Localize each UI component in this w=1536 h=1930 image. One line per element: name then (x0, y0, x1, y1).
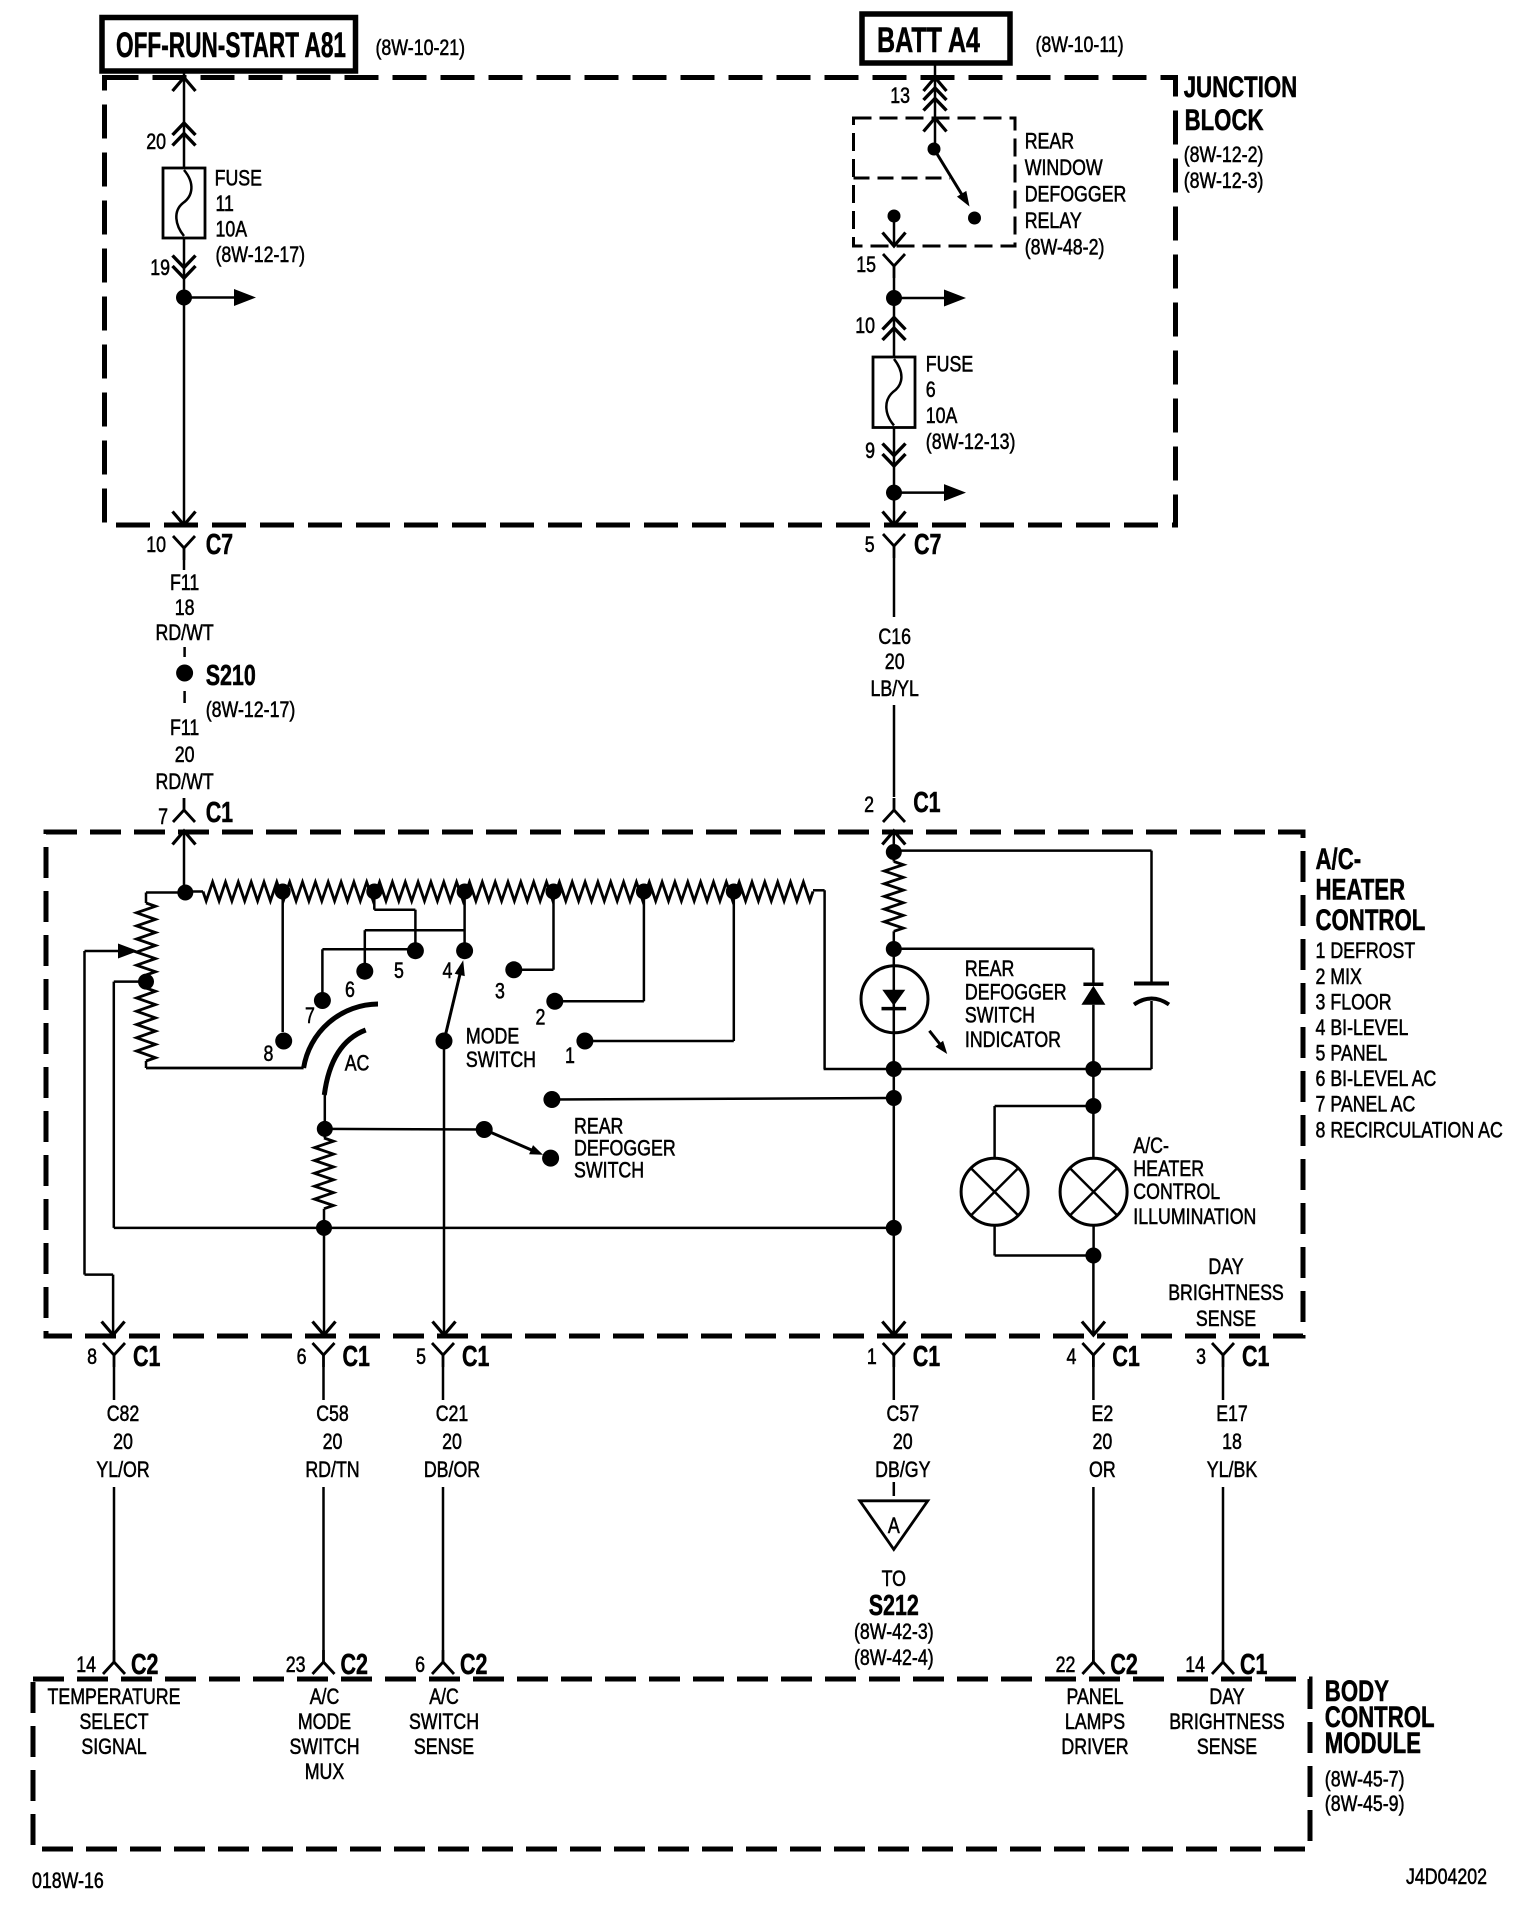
svg-text:18: 18 (1222, 1429, 1242, 1454)
junction block dashed border (105, 78, 1176, 526)
svg-text:SENSE: SENSE (1197, 1734, 1257, 1759)
svg-text:RELAY: RELAY (1025, 208, 1082, 233)
svg-text:23: 23 (286, 1652, 306, 1677)
connector C1 pin 7 (183, 798, 186, 810)
svg-text:AC: AC (345, 1050, 370, 1075)
branch arrow tap right (184, 296, 238, 299)
wire pot tap to rail (114, 980, 146, 983)
wire C82 to body module (113, 1487, 116, 1650)
svg-text:A: A (888, 1513, 900, 1538)
connector C2 pin 14 at body control module (113, 1650, 116, 1662)
svg-text:5: 5 (865, 532, 875, 557)
svg-text:DEFOGGER: DEFOGGER (1025, 182, 1127, 207)
svg-text:10A: 10A (926, 403, 958, 428)
power node OFF-RUN-START A81 box (102, 18, 356, 72)
svg-text:BRIGHTNESS: BRIGHTNESS (1168, 1280, 1284, 1305)
svg-text:14: 14 (76, 1652, 96, 1677)
wire to capacitor top (894, 849, 1152, 852)
svg-text:C58: C58 (316, 1401, 349, 1426)
potentiometer tap node (138, 974, 154, 990)
svg-text:1 DEFROST: 1 DEFROST (1316, 938, 1416, 963)
indicator pointer arrow (929, 1031, 943, 1048)
svg-text:8: 8 (87, 1344, 97, 1369)
wire from OFF-RUN-START A81 into junction block (183, 71, 186, 77)
wire C82 20 YL/OR (113, 1367, 116, 1400)
wire rear defogger switch to C57 branch (552, 1098, 894, 1100)
wire C58 to body module (322, 1487, 325, 1650)
svg-text:C1: C1 (1240, 1649, 1267, 1681)
svg-text:F11: F11 (170, 715, 199, 740)
node day-bright rail join (886, 1220, 902, 1236)
svg-text:DB/OR: DB/OR (424, 1457, 480, 1482)
svg-text:SELECT: SELECT (79, 1709, 148, 1734)
connector C1 pin 1 (883, 1343, 905, 1355)
junction node below fuse 6 (886, 485, 902, 501)
in-line connector pin 20 (173, 123, 196, 135)
AC rotary arc outer (304, 1004, 378, 1068)
entry pin 7 arrow into A/C control (173, 831, 196, 845)
svg-text:C1: C1 (462, 1341, 489, 1373)
svg-text:20: 20 (323, 1429, 343, 1454)
in-line connector pin 13 (924, 88, 947, 100)
wire C58 20 RD/TN (322, 1367, 325, 1400)
entry node for defogger indicator (886, 844, 902, 860)
svg-text:(8W-42-3): (8W-42-3) (854, 1619, 934, 1644)
svg-text:SENSE: SENSE (414, 1734, 474, 1759)
svg-text:(8W-12-17): (8W-12-17) (206, 697, 296, 722)
mode contact 1 wire (585, 1040, 734, 1043)
svg-text:13: 13 (890, 83, 910, 108)
svg-text:LAMPS: LAMPS (1065, 1709, 1125, 1734)
indicator bottom rail (824, 1068, 1152, 1071)
svg-text:DAY: DAY (1209, 1684, 1244, 1709)
svg-text:15: 15 (856, 252, 876, 277)
svg-text:SWITCH: SWITCH (289, 1734, 359, 1759)
svg-text:19: 19 (150, 255, 170, 280)
relay internal divider (854, 177, 951, 180)
connector C1 pin 8 (103, 1343, 125, 1355)
svg-text:BATT A4: BATT A4 (877, 21, 980, 60)
svg-text:2: 2 (864, 792, 874, 817)
svg-text:(8W-12-3): (8W-12-3) (1184, 168, 1264, 193)
relay output pin node (888, 210, 901, 223)
wire E17 18 YL/BK (1222, 1367, 1225, 1400)
wire fuse 11 to junction node (183, 238, 186, 290)
svg-text:(8W-12-13): (8W-12-13) (926, 429, 1016, 454)
relay switch armature (934, 149, 964, 198)
svg-text:C7: C7 (206, 529, 233, 561)
mode contact 5 wire (373, 892, 376, 910)
svg-text:J4D04202: J4D04202 (1406, 1864, 1487, 1889)
svg-text:C21: C21 (436, 1401, 469, 1426)
svg-text:(8W-48-2): (8W-48-2) (1025, 235, 1105, 260)
svg-text:8: 8 (264, 1041, 274, 1066)
svg-text:C1: C1 (913, 787, 940, 819)
svg-text:ILLUMINATION: ILLUMINATION (1133, 1204, 1256, 1229)
mode contact 8 wire (281, 892, 284, 1033)
wire down to junction block edge C7 (183, 298, 186, 526)
node on day-bright rail (316, 1220, 332, 1236)
svg-text:MODE: MODE (466, 1024, 519, 1049)
svg-text:1: 1 (565, 1043, 575, 1068)
wire AC position down to node (324, 1094, 327, 1129)
svg-text:LB/YL: LB/YL (871, 676, 919, 701)
wire to diode top (894, 947, 1094, 950)
connector C7 pin 5 (883, 534, 905, 546)
illumination lamp branch (1092, 1069, 1095, 1158)
connector C2 pin 23 at body control module (322, 1650, 325, 1662)
wire C16 20 LB/YL (893, 558, 896, 617)
wire AC node to rear defogger switch pivot (325, 1128, 484, 1131)
svg-text:RD/WT: RD/WT (156, 620, 214, 645)
svg-text:DAY: DAY (1208, 1254, 1243, 1279)
svg-text:DB/GY: DB/GY (875, 1457, 930, 1482)
potentiometer wiper arrow (85, 950, 120, 953)
svg-text:8 RECIRCULATION AC: 8 RECIRCULATION AC (1316, 1117, 1503, 1142)
in-line connector pin 15 (883, 254, 905, 266)
connector C2 pin 6 at body control module (442, 1650, 445, 1662)
AC node (317, 1121, 333, 1137)
indicator dropping resistor (884, 862, 903, 932)
svg-text:HEATER: HEATER (1316, 873, 1406, 906)
svg-text:C1: C1 (913, 1341, 940, 1373)
svg-text:10: 10 (855, 313, 875, 338)
svg-text:MODE: MODE (298, 1709, 351, 1734)
svg-text:3: 3 (495, 979, 505, 1004)
A/C select resistor (315, 1138, 334, 1209)
svg-text:C57: C57 (887, 1401, 920, 1426)
svg-text:TO: TO (882, 1566, 906, 1591)
svg-text:REAR: REAR (965, 956, 1014, 981)
relay input pin arrow (924, 118, 947, 132)
svg-text:C2: C2 (341, 1649, 368, 1681)
mode contact 2 wire (555, 1000, 644, 1003)
wire C21 20 DB/OR (442, 1367, 445, 1400)
svg-text:(8W-12-17): (8W-12-17) (216, 242, 306, 267)
svg-text:A/C: A/C (310, 1684, 340, 1709)
svg-text:4: 4 (443, 958, 453, 983)
svg-text:018W-16: 018W-16 (32, 1868, 104, 1893)
svg-text:20: 20 (885, 649, 905, 674)
junction node after relay (886, 290, 902, 306)
power node BATT A4 box (862, 14, 1010, 63)
svg-text:A/C-: A/C- (1133, 1133, 1169, 1158)
svg-text:C1: C1 (1242, 1341, 1269, 1373)
relay output wire to box edge (893, 216, 896, 246)
svg-text:DRIVER: DRIVER (1061, 1734, 1128, 1759)
junction node on F11 feed (176, 290, 192, 306)
connector C1 pin 2 (893, 798, 896, 810)
A/C-heater control dashed border (46, 832, 1303, 1336)
svg-text:PANEL: PANEL (1067, 1684, 1124, 1709)
chain tap node A (275, 884, 291, 900)
mode switch wiper (444, 972, 461, 1041)
svg-text:(8W-42-4): (8W-42-4) (854, 1645, 934, 1670)
entry node (177, 885, 193, 901)
off-page connector A to S212 (893, 1482, 896, 1496)
svg-text:C2: C2 (131, 1649, 158, 1681)
svg-text:C2: C2 (1110, 1649, 1137, 1681)
svg-text:C2: C2 (460, 1649, 487, 1681)
wire E2 to body module (1092, 1487, 1095, 1650)
svg-text:14: 14 (1185, 1652, 1205, 1677)
mode contact 7 wire (321, 949, 324, 1000)
wire F11 18 RD/WT (183, 560, 186, 570)
mode contact 6 wire (364, 930, 367, 971)
svg-text:YL/OR: YL/OR (96, 1457, 149, 1482)
chain tap node C (457, 884, 473, 900)
wire to junction block edge C7 pin 5 (893, 493, 896, 525)
svg-text:CONTROL: CONTROL (1133, 1179, 1220, 1204)
mode contact 3 wire (514, 969, 554, 972)
lamp common return (993, 1225, 996, 1255)
svg-text:SWITCH: SWITCH (409, 1709, 479, 1734)
svg-text:REAR: REAR (1025, 128, 1074, 153)
svg-text:5: 5 (394, 958, 404, 983)
wire C57 20 DB/GY (893, 1367, 896, 1400)
LED rear defogger switch indicator (893, 949, 896, 1069)
svg-text:DEFOGGER: DEFOGGER (965, 979, 1067, 1004)
svg-text:A/C-: A/C- (1316, 843, 1362, 876)
wire relay to fuse 6 (893, 278, 896, 298)
mode contact 4 wire (463, 892, 466, 951)
svg-text:6: 6 (926, 377, 936, 402)
day brightness rail (114, 1227, 894, 1230)
svg-text:22: 22 (1056, 1652, 1076, 1677)
svg-text:7: 7 (305, 1003, 315, 1028)
svg-text:INDICATOR: INDICATOR (965, 1027, 1061, 1052)
connector C1 pin 6 (313, 1343, 335, 1355)
svg-text:RD/WT: RD/WT (156, 769, 214, 794)
body control module dashed border (33, 1679, 1310, 1849)
svg-text:2 MIX: 2 MIX (1316, 964, 1362, 989)
svg-text:6: 6 (345, 977, 355, 1002)
svg-text:MUX: MUX (305, 1759, 345, 1784)
wire E17 to body module (1222, 1487, 1225, 1650)
svg-text:9: 9 (865, 438, 875, 463)
svg-text:C16: C16 (878, 624, 911, 649)
node lamp branch (1085, 1098, 1101, 1114)
fuse 6 (873, 357, 915, 428)
rear defogger switch output contact (543, 1091, 560, 1108)
svg-text:RD/TN: RD/TN (305, 1457, 359, 1482)
svg-text:C1: C1 (343, 1341, 370, 1373)
clamp diode (1083, 983, 1103, 987)
entry pin 2 arrow into A/C control (882, 831, 905, 845)
fuse 11 (163, 168, 205, 238)
splice S210 (176, 665, 193, 682)
svg-text:(8W-10-21): (8W-10-21) (376, 35, 466, 60)
svg-text:10A: 10A (216, 217, 248, 242)
svg-text:BLOCK: BLOCK (1185, 104, 1264, 137)
svg-text:YL/BK: YL/BK (1207, 1457, 1257, 1482)
svg-text:SWITCH: SWITCH (574, 1158, 644, 1183)
svg-text:S212: S212 (869, 1590, 919, 1622)
svg-text:20: 20 (113, 1429, 133, 1454)
svg-text:C7: C7 (914, 529, 941, 561)
svg-text:(8W-12-2): (8W-12-2) (1184, 142, 1264, 167)
svg-text:OR: OR (1089, 1457, 1116, 1482)
chain tap node B (366, 884, 382, 900)
svg-text:3 FLOOR: 3 FLOOR (1316, 989, 1392, 1014)
svg-text:E2: E2 (1092, 1401, 1114, 1426)
main column wire down to exit C1 pin 1 (893, 1069, 896, 1335)
svg-text:JUNCTION: JUNCTION (1184, 71, 1298, 104)
svg-text:C1: C1 (206, 797, 233, 829)
svg-text:WINDOW: WINDOW (1025, 155, 1104, 180)
chain tap node F (726, 884, 742, 900)
svg-text:SWITCH: SWITCH (466, 1047, 536, 1072)
svg-text:BRIGHTNESS: BRIGHTNESS (1169, 1709, 1285, 1734)
svg-text:20: 20 (1093, 1429, 1113, 1454)
svg-text:C82: C82 (107, 1401, 140, 1426)
exit arrows at A/C control bottom edge (102, 1322, 125, 1336)
temperature potentiometer (146, 891, 185, 894)
relay NO contact (968, 212, 981, 225)
svg-text:(8W-10-11): (8W-10-11) (1036, 32, 1124, 57)
rear defogger switch open contact (542, 1150, 559, 1167)
svg-text:E17: E17 (1216, 1401, 1248, 1426)
svg-text:11: 11 (216, 191, 234, 216)
svg-text:S210: S210 (206, 660, 256, 692)
svg-text:20: 20 (146, 129, 166, 154)
AC rotary arc inner (324, 1030, 365, 1095)
svg-text:SIGNAL: SIGNAL (81, 1734, 146, 1759)
svg-text:FUSE: FUSE (926, 351, 973, 376)
connector C1 pin 5 (432, 1343, 454, 1355)
svg-text:7: 7 (158, 804, 168, 829)
branch arrow tap right (894, 491, 948, 494)
wire fuse 6 down (893, 428, 896, 493)
connector C2 pin 22 at body control module (1092, 1650, 1095, 1662)
svg-text:A/C: A/C (429, 1684, 459, 1709)
svg-text:6: 6 (297, 1344, 307, 1369)
wire chain end down to indicator rail (823, 890, 826, 1069)
node above LED (886, 941, 902, 957)
mode resistor chain (185, 890, 203, 893)
svg-text:20: 20 (175, 742, 195, 767)
relay common node (928, 143, 941, 156)
svg-text:FUSE: FUSE (215, 166, 262, 191)
wire pot wiper to exit C1 pin 8 (83, 951, 86, 1275)
svg-text:SENSE: SENSE (1196, 1306, 1256, 1331)
wire from BATT A4 into junction block (934, 63, 937, 77)
connector C1 pin 3 (1212, 1343, 1234, 1355)
svg-text:5: 5 (416, 1344, 426, 1369)
svg-text:F11: F11 (170, 570, 199, 595)
connector C1 pin 14 at body control module (1222, 1650, 1225, 1662)
svg-text:4 BI-LEVEL: 4 BI-LEVEL (1316, 1015, 1409, 1040)
wire C21 to body module (442, 1487, 445, 1650)
svg-text:7 PANEL AC: 7 PANEL AC (1316, 1092, 1416, 1117)
svg-text:18: 18 (175, 595, 195, 620)
node diode bottom (1085, 1061, 1101, 1077)
illumination lamp right (1060, 1158, 1127, 1225)
connector C1 pin 4 (1082, 1343, 1104, 1355)
svg-text:TEMPERATURE: TEMPERATURE (48, 1684, 181, 1709)
capacitor (1134, 982, 1169, 986)
svg-text:6: 6 (415, 1652, 425, 1677)
svg-text:SWITCH: SWITCH (965, 1003, 1035, 1028)
rear window defogger relay dashed box (854, 118, 1016, 246)
node lamps join (1085, 1248, 1101, 1264)
svg-text:C1: C1 (133, 1341, 160, 1373)
svg-text:OFF-RUN-START A81: OFF-RUN-START A81 (116, 26, 346, 65)
svg-text:4: 4 (1067, 1344, 1077, 1369)
chain tap node D (546, 884, 562, 900)
svg-text:3: 3 (1196, 1344, 1206, 1369)
svg-text:6 BI-LEVEL AC: 6 BI-LEVEL AC (1316, 1066, 1437, 1091)
in-line connector pin 10 (883, 318, 906, 330)
rear defogger switch armature (484, 1130, 535, 1152)
svg-text:20: 20 (893, 1429, 913, 1454)
rear defogger switch pivot (476, 1121, 493, 1138)
svg-text:1: 1 (867, 1344, 877, 1369)
svg-text:(8W-45-7): (8W-45-7) (1325, 1767, 1405, 1792)
svg-text:MODULE: MODULE (1325, 1727, 1421, 1760)
svg-text:C1: C1 (1112, 1341, 1139, 1373)
svg-text:20: 20 (442, 1429, 462, 1454)
node at C57 column y1098 (886, 1090, 902, 1106)
chain tap node E (636, 884, 652, 900)
svg-text:CONTROL: CONTROL (1316, 904, 1426, 937)
wire E2 20 OR (1092, 1367, 1095, 1400)
wire to exit C1 pin 4 (1092, 1256, 1095, 1336)
svg-text:10: 10 (146, 532, 166, 557)
illumination lamp left (961, 1158, 1028, 1225)
svg-text:5 PANEL: 5 PANEL (1316, 1041, 1388, 1066)
svg-text:(8W-45-9): (8W-45-9) (1325, 1791, 1405, 1816)
in-line connector pin 9 (883, 444, 906, 456)
svg-text:HEATER: HEATER (1133, 1156, 1204, 1181)
svg-text:2: 2 (536, 1005, 546, 1030)
in-line connector pin 19 (173, 256, 196, 268)
connector C7 pin 10 (173, 536, 195, 548)
node LED bottom (886, 1061, 902, 1077)
branch arrow tap right (894, 297, 948, 300)
